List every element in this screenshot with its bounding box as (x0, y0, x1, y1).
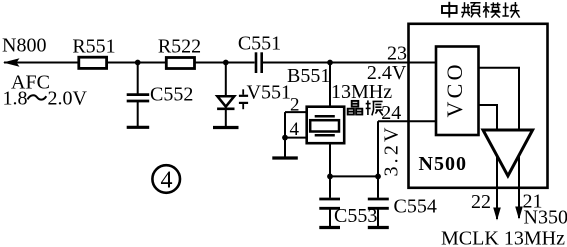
node junction C554 / 3.2V line (375, 174, 381, 180)
svg-text:C551: C551 (238, 33, 281, 55)
svg-text:2: 2 (290, 95, 300, 116)
ground bar below V551 (213, 126, 239, 129)
char 振 (366, 100, 383, 115)
ground bar below crystal case (272, 156, 298, 159)
svg-text:B551: B551 (287, 65, 330, 87)
resistor R551 (79, 57, 107, 68)
capacitor C552 plates (127, 95, 150, 101)
wire: crystal case pin 2 lead (285, 111, 307, 113)
svg-text:N350: N350 (524, 207, 567, 229)
wire: V551 cathode to ground (225, 109, 227, 127)
wire: C552 to ground (137, 101, 139, 126)
wire: main AFC net, left segment (arrow tip to C551 left plate) (4, 62, 255, 64)
crystal B551 lower electrode plate (315, 134, 335, 137)
wire: 3.2V vertical line up to pin 24 (377, 121, 379, 176)
diode V551 (varactor) triangle (217, 96, 234, 106)
crystal B551 case box (307, 107, 345, 144)
svg-text:4: 4 (161, 167, 173, 193)
diode V551 cathode bar (217, 107, 234, 110)
svg-text:1.8: 1.8 (3, 87, 28, 109)
wire: pin 23 internal (module edge to VCO) (409, 62, 437, 64)
wire: crystal case pin 4 lead (285, 137, 307, 139)
svg-text:N500: N500 (419, 153, 467, 175)
node junction at crystal top tap (327, 60, 333, 66)
node junction at V551 tap (223, 60, 229, 66)
wire: main net right segment (C551 right plate to module box edge) (263, 62, 409, 64)
ground bar below C553 (319, 226, 340, 229)
svg-text:C553: C553 (334, 205, 377, 227)
char 模 (483, 2, 501, 18)
wire: VCO output 1 (right then down to pin 21 arrow) (479, 68, 520, 218)
svg-text:13MHz: 13MHz (331, 81, 392, 103)
AFC output arrowhead (3, 58, 20, 66)
wire: C552 branch down (137, 63, 139, 94)
VCO block U-VCO (436, 47, 479, 136)
svg-text:22: 22 (471, 191, 491, 213)
wire: pin 23 internal segment to VCO (409, 62, 437, 64)
title 中频模块 (IF module, hand-drawn CJK strokes) (442, 2, 520, 18)
wire: bottom net horizontal (C553 to C554/3.2V line) (330, 175, 378, 177)
capacitor C554 plates (368, 199, 389, 208)
svg-text:4: 4 (290, 119, 300, 140)
svg-text:2.0V: 2.0V (48, 87, 88, 109)
wire: case pins down to ground (284, 112, 286, 157)
pin 21 output arrowhead (515, 207, 523, 220)
wire: C554 to ground (377, 208, 379, 226)
capacitor C551 (series, vertical plates) (256, 52, 262, 73)
char 中 (442, 2, 457, 18)
ground bar below C554 (368, 226, 389, 229)
svg-text:R551: R551 (72, 36, 115, 58)
label 晶振 (crystal, hand-drawn CJK strokes) (348, 100, 383, 115)
svg-text:C554: C554 (394, 195, 437, 217)
varactor capacitance mark (small vertical capacitor) (239, 89, 248, 109)
char 频 (461, 2, 480, 17)
IF module N500 outline box (409, 24, 548, 188)
reference bubble: circled 4 (152, 165, 180, 193)
char 晶 (348, 101, 363, 115)
capacitor C553 top lead (329, 176, 331, 197)
svg-text:3.2V: 3.2V (381, 127, 403, 177)
crystal B551 quartz element rectangle (310, 120, 339, 131)
wire: pin 24 internal segment to VCO (409, 120, 437, 122)
svg-text:R522: R522 (158, 36, 201, 58)
wire: crystal B551 top lead (329, 63, 331, 108)
wire: pin 24 lead into module (378, 120, 436, 122)
svg-text:VCO: VCO (442, 65, 467, 118)
crystal B551 upper electrode plate (315, 115, 335, 118)
capacitor C554 top lead (377, 176, 379, 197)
resistor R522 (166, 58, 194, 69)
wire: V551 anode branch (225, 63, 227, 97)
buffer amplifier triangle (white filled, over the lines) (483, 130, 533, 176)
svg-text:24: 24 (381, 102, 401, 124)
svg-text:N800: N800 (2, 35, 46, 57)
svg-text:C552: C552 (150, 83, 193, 105)
pin 22 output arrowhead (493, 208, 501, 221)
capacitor C553 plates (319, 199, 340, 208)
wire: C553 to ground (329, 208, 331, 226)
node junction at R551/R522 (C552 tap) (135, 60, 141, 66)
node junction crystal-bottom / C553 (327, 174, 333, 180)
svg-text:2.4V: 2.4V (367, 62, 407, 84)
svg-text:MCLK 13MHz: MCLK 13MHz (441, 228, 565, 247)
wire: crystal bottom lead down (329, 143, 331, 176)
node junction of pin 2/4 leads (282, 135, 288, 141)
char 块 (502, 2, 519, 18)
svg-text:V551: V551 (247, 81, 291, 103)
wire: VCO output 2 (right then down to pin 22 arrow) (479, 105, 498, 219)
ground bar below C552 (127, 126, 150, 129)
